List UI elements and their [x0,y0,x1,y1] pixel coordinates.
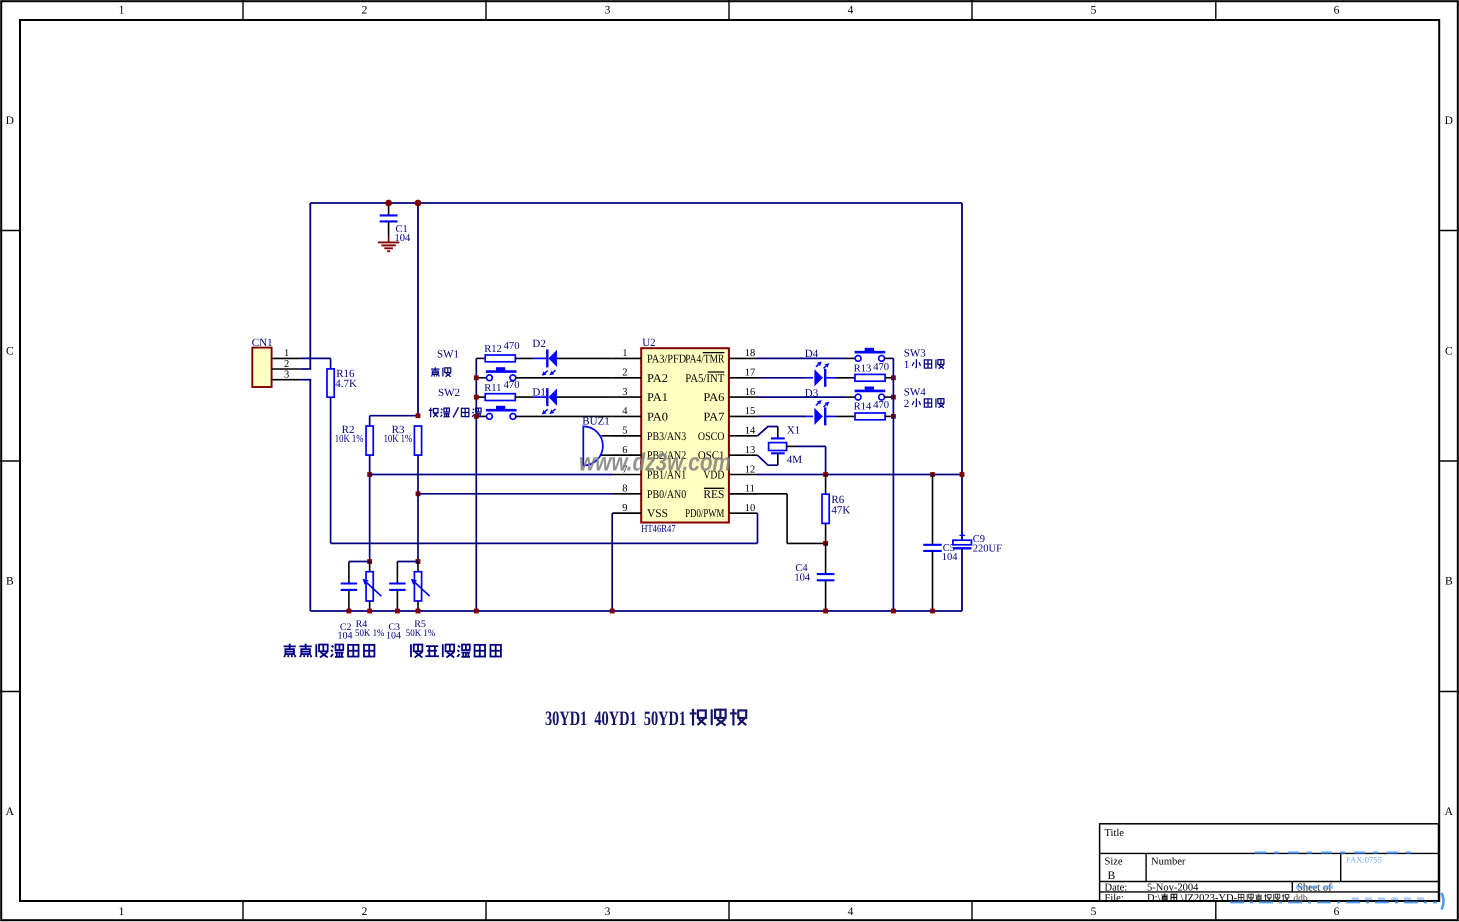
node junction SW2 tap [474,414,479,419]
svg-text:15: 15 [745,406,756,417]
svg-text:X1: X1 [787,424,800,436]
svg-text:2: 2 [284,359,289,370]
overline INT [708,371,725,373]
svg-text:3: 3 [605,5,611,17]
svg-text:SW1: SW1 [437,348,459,360]
label cook-rice [431,367,439,376]
svg-text:PA6: PA6 [703,390,724,404]
svg-text:3: 3 [605,906,611,918]
resistor R2 [366,426,373,455]
resistor R3 [414,426,421,455]
svg-text:PD0/PWM: PD0/PWM [685,506,725,520]
svg-text:18: 18 [745,348,756,359]
wire PD0 route [757,512,759,514]
pin 3 stub [613,396,642,398]
svg-text:+: + [959,530,965,542]
wire PA7 to D3 [758,415,807,417]
led D2 [533,357,546,359]
svg-text:1: 1 [904,359,910,371]
svg-text:5: 5 [1091,906,1097,918]
svg-text:104: 104 [942,552,959,563]
pin 9 stub [613,512,642,514]
svg-text:R14: R14 [854,402,872,413]
svg-text:U2: U2 [642,337,655,349]
wire OSC1 to X1 [758,455,778,465]
svg-text:8: 8 [622,484,627,495]
pin 3 (CN1) [272,379,301,381]
wire VDD top rail [310,202,962,204]
wire RES net [729,493,787,495]
node junction R2/PB1 [367,472,372,477]
thermistor R4 [369,562,371,572]
svg-text:D1: D1 [532,386,545,398]
node junction GND R5 [416,609,421,614]
svg-text:C: C [6,345,14,357]
svg-text:50K 1%: 50K 1% [406,628,436,639]
svg-text:Number: Number [1151,856,1186,867]
node junction C1/top rail [385,200,392,207]
svg-text:4: 4 [848,5,854,17]
svg-text:SW4: SW4 [904,386,927,398]
pin 16 stub [729,396,758,398]
overline TMR [703,352,725,354]
led D4 [806,377,813,379]
capacitor C2 [341,582,357,584]
svg-text:\JZ2023-YD-: \JZ2023-YD- [1181,893,1238,904]
wire GND bottom rail [310,610,962,612]
capacitor C5 [932,475,934,545]
resistor R14 [855,413,885,420]
capacitor C1 [388,203,390,215]
node junction key return GND [891,609,896,614]
svg-text:FAX:0755: FAX:0755 [1346,854,1382,864]
wire CN1 pin3 to left rail [300,379,311,381]
resistor R6 [825,475,827,495]
svg-text:R13: R13 [854,364,872,375]
svg-text:50K 1%: 50K 1% [355,628,385,639]
wire R3 bottom column [417,455,419,561]
svg-text:PB0/AN0: PB0/AN0 [647,487,686,501]
svg-text:VSS: VSS [647,506,668,520]
svg-text:PA7: PA7 [703,409,724,423]
svg-text:A: A [1445,806,1454,818]
wire PB1/AN1 net (pin7 row) [370,474,613,476]
svg-text:PA4/TMR: PA4/TMR [685,351,724,365]
svg-text:104: 104 [386,631,401,642]
node junction RES/R6/C4 [823,541,828,546]
svg-text:HT46R47: HT46R47 [641,523,676,535]
svg-text:16: 16 [745,387,756,398]
svg-text:D: D [1445,115,1453,127]
switch SW3 [855,351,886,354]
svg-text:B: B [1445,575,1453,587]
wire top rail to R3 column [417,203,419,416]
svg-text:PA5/INT: PA5/INT [685,371,725,385]
node junction VDD/X1 [823,472,828,477]
svg-text:30YD1 40YD1 50YD1: 30YD1 40YD1 50YD1 [545,708,686,730]
pin 14 stub [729,435,758,437]
pin 18 stub [729,357,758,359]
capacitor C9 220UF [953,540,972,545]
svg-text:47K: 47K [831,505,850,517]
wire R16 bottom to PD0 route [330,397,332,543]
svg-text:5: 5 [1091,5,1097,17]
pin 1 (CN1) [272,357,301,359]
label keep-warm/cancel [429,408,438,418]
wire PB0/AN0 net (pin8 row) [418,493,613,495]
svg-text:1: 1 [119,5,125,17]
node junction VDD/C5 [930,472,935,477]
svg-text:10K 1%: 10K 1% [384,433,413,445]
node junction R4/C2 top [367,559,372,564]
buzzer BUZ1 [583,426,603,465]
svg-text:Size: Size [1105,856,1123,867]
svg-text:PA2: PA2 [647,371,668,385]
pin 11 stub [729,493,758,495]
pin 2 (CN1) [272,368,301,370]
node junction R13/SW3 [891,375,896,380]
wire VDD net [758,474,963,476]
pin 10 stub [729,512,758,514]
resistor R13 [855,374,885,381]
svg-text:D2: D2 [532,338,545,350]
svg-text:www.dz3w.com: www.dz3w.com [579,448,731,476]
svg-text:1: 1 [119,906,125,918]
svg-text:CN1: CN1 [252,337,273,349]
node junction SW4 tap [891,395,896,400]
led D1 [533,396,546,398]
wire PA6 to SW4 [758,396,846,398]
capacitor C4 [825,543,827,574]
svg-text:B: B [6,575,14,587]
pin 8 stub [613,493,642,495]
svg-text:1: 1 [284,348,289,359]
pin 13 stub [729,454,758,456]
svg-text:10: 10 [745,503,756,514]
node junction R11 tap [474,395,479,400]
capacitor C3 [389,582,405,584]
title block [1100,824,1439,901]
svg-text:17: 17 [745,368,756,379]
label bottom-plate temp sensor [284,644,296,658]
node junction SW1 tap [474,375,479,380]
pin 6 lead (BUZ1 to PB2) [601,454,641,456]
watermark blue fragments [1255,852,1418,854]
svg-text:3: 3 [622,387,627,398]
pin 5 stub [613,435,642,437]
node junction VSS GND [610,609,615,614]
svg-text:PB3/AN3: PB3/AN3 [647,429,686,443]
svg-text:13: 13 [745,445,756,456]
wire left rail lower (CN1 pin3 to GND rail) [309,380,311,611]
svg-text:SW2: SW2 [438,387,460,399]
svg-text:PA1: PA1 [647,390,668,404]
svg-text:220UF: 220UF [973,544,1002,555]
wire key return column [892,358,894,611]
pin 17 stub [729,377,758,379]
overline RES [704,487,724,489]
wire CN1 pin1 to R16 [300,357,330,359]
svg-text:D: D [6,115,14,127]
svg-text:4.7K: 4.7K [335,378,357,390]
node junction R5/C3 top [416,559,421,564]
svg-text:470: 470 [873,400,889,411]
svg-text:D3: D3 [805,388,819,400]
wire X1 case to VDD rail [787,445,796,447]
thermistor R5 [417,562,419,572]
wire OSCO to X1 [758,427,778,436]
node junction VDD/right rail [960,472,965,477]
svg-text:File:: File: [1105,893,1124,904]
svg-text:470: 470 [504,341,520,352]
svg-text:OSCO: OSCO [698,429,725,443]
resistor R16 [327,369,334,397]
node junction GND R4 [367,609,372,614]
svg-text:B: B [1108,870,1116,882]
pin 12 stub [729,474,758,476]
node junction R2-R3 top [416,413,421,418]
svg-text:R12: R12 [484,344,502,355]
node junction C5 GND [930,609,935,614]
svg-text:PA3/PFD: PA3/PFD [647,351,687,365]
svg-text:Title: Title [1105,828,1125,839]
svg-text:6: 6 [1334,5,1340,17]
ground GND (C1) [388,236,390,242]
svg-text:12: 12 [745,464,756,475]
svg-text:104: 104 [794,572,811,583]
wire C2 top link [349,561,370,563]
svg-text:2: 2 [362,5,368,17]
svg-text:A: A [6,806,15,818]
svg-text:D:\: D:\ [1147,893,1161,904]
node junction R3/PB0 [416,491,421,496]
svg-text:PA0: PA0 [647,409,668,423]
svg-text:104: 104 [338,631,353,642]
svg-text:10K 1%: 10K 1% [335,433,364,445]
pin 7 stub [613,474,642,476]
svg-text:470: 470 [504,380,520,391]
led D3 [806,415,813,417]
svg-text:2: 2 [362,906,368,918]
svg-text:2: 2 [622,368,627,379]
svg-text:4M: 4M [787,454,803,466]
switch SW4 [855,390,886,393]
node junction R14 tap [891,414,896,419]
switch SW1 [476,377,486,379]
wire right rail [961,203,963,540]
svg-text:3: 3 [284,370,289,381]
svg-text:4: 4 [848,906,854,918]
switch SW2 [476,415,486,417]
svg-text:9: 9 [622,503,627,514]
svg-text:R11: R11 [484,383,501,394]
pin 5 lead (BUZ1 to PB3) [601,435,641,437]
wire key column [475,358,477,611]
node junction GND C3 [395,609,400,614]
mcu U2 HT46R47 [641,348,729,522]
svg-text:BUZ1: BUZ1 [582,416,610,428]
wire PA4 to SW3 [758,357,846,359]
node junction C4 GND [823,609,828,614]
svg-text:2: 2 [904,398,910,410]
node junction top rail x418 [415,200,422,207]
connector CN1 [252,348,271,387]
pin 1 stub [613,357,642,359]
crystal X1 4M [771,437,785,439]
wire VSS to GND rail [612,512,641,514]
svg-text:C: C [1445,345,1453,357]
wire PA5 to D4 [758,377,807,379]
resistor R12 [476,357,485,359]
svg-text:470: 470 [873,362,889,373]
svg-text:11: 11 [745,484,755,495]
svg-text:5: 5 [622,426,627,437]
pin 15 stub [729,415,758,417]
svg-text:4: 4 [622,406,628,417]
wire R2/R3 top link [369,416,371,426]
resistor R11 [476,396,485,398]
wire R2 bottom column [369,455,371,561]
wire CN1 pin2 to left rail [300,368,311,370]
wire C3 top link [397,561,418,563]
node junction GND C2 [347,609,352,614]
svg-text:14: 14 [745,426,756,437]
svg-text:6: 6 [1334,906,1340,918]
wire left rail upper (to CN1 pin2) [309,203,311,369]
node junction key col GND [474,609,479,614]
svg-text:1: 1 [622,348,627,359]
label pot-lid temp sensor [411,644,422,657]
svg-text:D4: D4 [805,348,819,360]
svg-text:SW3: SW3 [904,347,927,359]
pin 6 stub [613,454,642,456]
pin 4 stub [613,415,642,417]
pin 2 stub [613,377,642,379]
